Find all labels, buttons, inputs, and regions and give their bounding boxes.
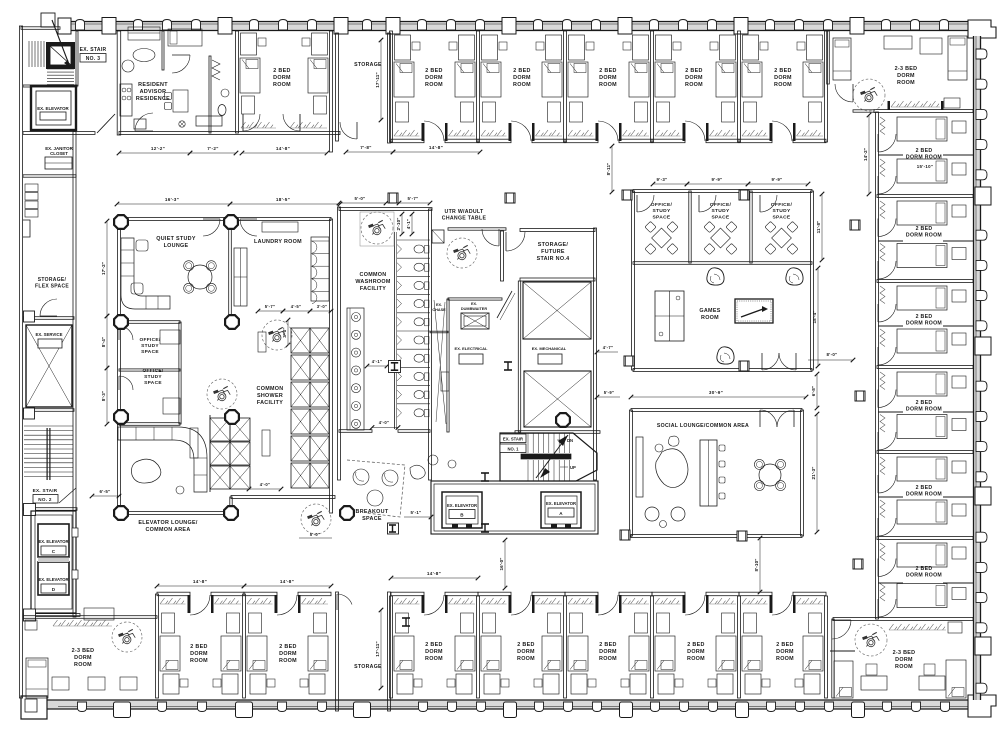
svg-text:16'-3": 16'-3" [165, 197, 179, 202]
svg-text:ROOM: ROOM [685, 82, 703, 88]
svg-text:COMMON AREA: COMMON AREA [145, 527, 190, 533]
svg-text:6'-5": 6'-5" [100, 489, 111, 494]
svg-text:BREAKOUT: BREAKOUT [356, 509, 389, 515]
svg-text:EX. STAIR: EX. STAIR [503, 437, 523, 442]
svg-text:2-3 BED: 2-3 BED [895, 66, 918, 72]
svg-text:2 BED: 2 BED [279, 644, 296, 650]
svg-text:17'-2": 17'-2" [101, 262, 106, 275]
svg-text:11'-8": 11'-8" [816, 221, 821, 234]
svg-text:ROOM: ROOM [273, 82, 291, 88]
svg-text:LOUNGE: LOUNGE [164, 243, 189, 249]
svg-text:14'-8": 14'-8" [427, 571, 441, 576]
svg-text:5'-7": 5'-7" [265, 304, 276, 309]
svg-text:STUDY: STUDY [652, 208, 671, 214]
svg-text:NO. 3: NO. 3 [86, 56, 101, 62]
svg-text:6'-8": 6'-8" [811, 386, 816, 396]
svg-text:ROOM: ROOM [513, 82, 531, 88]
svg-text:DORM: DORM [599, 649, 617, 655]
svg-text:4'-1": 4'-1" [372, 359, 383, 364]
svg-text:STORAGE: STORAGE [354, 62, 382, 68]
svg-text:RESIDENT: RESIDENT [138, 82, 168, 88]
svg-text:DORM: DORM [687, 649, 705, 655]
svg-text:2-3 BED: 2-3 BED [893, 650, 916, 656]
svg-text:ROOM: ROOM [599, 82, 617, 88]
svg-text:2 BED: 2 BED [190, 644, 207, 650]
svg-text:NO. 2: NO. 2 [38, 497, 52, 502]
svg-text:8'-4": 8'-4" [101, 337, 106, 347]
svg-text:LAUNDRY ROOM: LAUNDRY ROOM [254, 239, 302, 245]
svg-text:ROOM: ROOM [776, 656, 794, 662]
svg-text:CLOSET: CLOSET [50, 151, 68, 156]
svg-text:9'-3": 9'-3" [657, 177, 668, 182]
svg-text:STORAGE/: STORAGE/ [38, 277, 67, 283]
svg-text:OFFICE/: OFFICE/ [651, 202, 673, 208]
svg-text:FLEX SPACE: FLEX SPACE [35, 283, 69, 289]
svg-text:UP: UP [570, 465, 576, 470]
svg-text:FACILITY: FACILITY [257, 400, 283, 406]
svg-text:5'-0": 5'-0" [310, 532, 321, 537]
svg-text:2 BED: 2 BED [776, 642, 793, 648]
svg-text:4'-0": 4'-0" [379, 420, 390, 425]
svg-text:SPACE: SPACE [653, 214, 671, 220]
svg-text:14'-8": 14'-8" [276, 146, 290, 151]
svg-text:14'-8": 14'-8" [193, 579, 207, 584]
svg-text:NO. 1: NO. 1 [508, 447, 520, 452]
svg-text:EX. ELEVATOR: EX. ELEVATOR [37, 106, 69, 111]
svg-text:5'-0": 5'-0" [355, 196, 366, 201]
svg-text:DORM: DORM [685, 75, 703, 81]
svg-text:DORM: DORM [517, 649, 535, 655]
svg-text:EX.: EX. [436, 303, 442, 307]
svg-text:DORM ROOM: DORM ROOM [906, 233, 942, 239]
svg-text:2 BED: 2 BED [425, 68, 442, 74]
svg-text:EX. ELECTRICAL: EX. ELECTRICAL [455, 346, 488, 351]
svg-text:ROOM: ROOM [190, 658, 208, 664]
svg-text:ELEVATOR LOUNGE/: ELEVATOR LOUNGE/ [138, 520, 198, 526]
svg-text:EX. MECHANICAL: EX. MECHANICAL [532, 346, 567, 351]
svg-text:5'-1": 5'-1" [411, 510, 422, 515]
svg-text:DORM ROOM: DORM ROOM [906, 155, 942, 161]
svg-text:8'-3": 8'-3" [101, 391, 106, 401]
svg-text:2 BED: 2 BED [599, 68, 616, 74]
svg-text:ROOM: ROOM [701, 315, 719, 321]
svg-text:4'-5": 4'-5" [291, 304, 302, 309]
svg-text:ROOM: ROOM [425, 656, 443, 662]
svg-text:SPACE: SPACE [773, 214, 791, 220]
svg-text:17'-11": 17'-11" [375, 641, 380, 656]
svg-text:CHANGE TABLE: CHANGE TABLE [442, 216, 487, 222]
svg-text:STORAGE: STORAGE [354, 664, 382, 670]
svg-text:D: D [52, 587, 56, 592]
svg-text:COMMON: COMMON [360, 272, 387, 278]
svg-text:WASHROOM: WASHROOM [355, 279, 391, 285]
svg-text:OFFICE/: OFFICE/ [139, 337, 160, 343]
svg-text:15'-10": 15'-10" [917, 164, 933, 169]
svg-text:DORM: DORM [774, 75, 792, 81]
svg-text:ADVISOR: ADVISOR [140, 89, 167, 95]
svg-text:16'-0": 16'-0" [499, 557, 504, 570]
svg-text:DN: DN [567, 438, 573, 443]
svg-text:12'-2": 12'-2" [151, 146, 165, 151]
svg-text:18'-5": 18'-5" [276, 197, 290, 202]
svg-text:3'-0": 3'-0" [317, 304, 328, 309]
svg-text:STUDY: STUDY [141, 343, 159, 349]
svg-text:EX. ELEVATOR: EX. ELEVATOR [38, 577, 68, 582]
svg-text:2 BED: 2 BED [916, 226, 933, 232]
svg-text:DORM ROOM: DORM ROOM [906, 407, 942, 413]
svg-text:DORM: DORM [895, 657, 913, 663]
svg-text:7'-8": 7'-8" [360, 145, 371, 150]
svg-text:DORM: DORM [74, 655, 92, 661]
svg-text:DORM: DORM [279, 651, 297, 657]
svg-text:DORM: DORM [190, 651, 208, 657]
svg-text:2 BED: 2 BED [916, 148, 933, 154]
svg-text:STUDY: STUDY [772, 208, 791, 214]
svg-text:ROOM: ROOM [279, 658, 297, 664]
svg-text:5'-9": 5'-9" [604, 390, 615, 395]
svg-text:CHASE: CHASE [432, 308, 446, 312]
svg-text:2 BED: 2 BED [517, 642, 534, 648]
svg-text:17'-11": 17'-11" [375, 72, 380, 87]
svg-text:ROOM: ROOM [897, 80, 915, 86]
svg-text:EX. ELEVATOR: EX. ELEVATOR [447, 503, 477, 508]
svg-text:DORM ROOM: DORM ROOM [906, 492, 942, 498]
svg-text:4'-7": 4'-7" [603, 345, 614, 350]
svg-text:B: B [460, 513, 464, 518]
svg-text:A: A [559, 511, 563, 516]
svg-text:2 BED: 2 BED [425, 642, 442, 648]
svg-text:2 BED: 2 BED [687, 642, 704, 648]
svg-text:SPACE: SPACE [141, 349, 159, 355]
svg-text:OFFICE/: OFFICE/ [142, 368, 163, 374]
svg-text:8'-11": 8'-11" [606, 163, 611, 176]
svg-text:ROOM: ROOM [425, 82, 443, 88]
svg-text:2 BED: 2 BED [916, 485, 933, 491]
svg-text:ROOM: ROOM [517, 656, 535, 662]
svg-text:2'-10": 2'-10" [396, 217, 401, 230]
svg-text:STAIR NO.4: STAIR NO.4 [537, 256, 570, 262]
svg-text:ROOM: ROOM [895, 664, 913, 670]
svg-text:DORM: DORM [897, 73, 915, 79]
svg-text:8'-0": 8'-0" [827, 352, 838, 357]
svg-text:7'-2": 7'-2" [207, 146, 218, 151]
svg-text:2 BED: 2 BED [774, 68, 791, 74]
svg-text:4'-1": 4'-1" [406, 219, 411, 229]
svg-text:DORM ROOM: DORM ROOM [906, 321, 942, 327]
svg-text:DORM: DORM [425, 649, 443, 655]
svg-text:2 BED: 2 BED [916, 314, 933, 320]
svg-text:STORAGE/: STORAGE/ [538, 242, 569, 248]
svg-text:COMMON: COMMON [257, 386, 284, 392]
svg-text:2 BED: 2 BED [513, 68, 530, 74]
svg-text:SOCIAL LOUNGE/COMMON AREA: SOCIAL LOUNGE/COMMON AREA [657, 423, 749, 429]
svg-text:DUMBWAITER: DUMBWAITER [461, 307, 487, 311]
svg-text:DORM: DORM [273, 75, 291, 81]
svg-text:C: C [52, 549, 56, 554]
svg-text:FUTURE: FUTURE [541, 249, 565, 255]
svg-text:FACILITY: FACILITY [360, 286, 386, 292]
svg-text:18'-4": 18'-4" [812, 310, 817, 323]
svg-text:ROOM: ROOM [599, 656, 617, 662]
svg-text:DORM: DORM [425, 75, 443, 81]
svg-text:STUDY: STUDY [711, 208, 730, 214]
svg-text:5'-7": 5'-7" [408, 196, 419, 201]
svg-text:2 BED: 2 BED [685, 68, 702, 74]
svg-text:EX. SERVICE: EX. SERVICE [36, 332, 63, 337]
svg-text:EX. STAIR: EX. STAIR [80, 47, 107, 53]
svg-text:9'-9": 9'-9" [772, 177, 783, 182]
svg-text:14'-2": 14'-2" [863, 148, 868, 161]
svg-text:SPACE: SPACE [144, 380, 162, 386]
svg-text:30'-9": 30'-9" [709, 390, 723, 395]
svg-text:4'-0": 4'-0" [260, 482, 271, 487]
svg-text:GAMES: GAMES [699, 308, 720, 314]
svg-text:14'-8": 14'-8" [429, 145, 443, 150]
svg-text:DORM: DORM [599, 75, 617, 81]
svg-text:SPACE: SPACE [362, 516, 382, 522]
svg-text:EX. STAIR: EX. STAIR [33, 488, 58, 493]
svg-text:2 BED: 2 BED [916, 566, 933, 572]
svg-text:DORM: DORM [776, 649, 794, 655]
svg-text:2 BED: 2 BED [599, 642, 616, 648]
svg-text:21'-3": 21'-3" [811, 466, 816, 479]
svg-text:DORM ROOM: DORM ROOM [906, 573, 942, 579]
svg-text:ROOM: ROOM [687, 656, 705, 662]
svg-text:UTR W/ADULT: UTR W/ADULT [445, 209, 484, 215]
svg-text:2 BED: 2 BED [273, 68, 290, 74]
svg-text:STUDY: STUDY [144, 374, 162, 380]
svg-text:14'-8": 14'-8" [280, 579, 294, 584]
svg-text:ROOM: ROOM [774, 82, 792, 88]
svg-text:2 BED: 2 BED [916, 400, 933, 406]
svg-text:EX. ELEVATOR: EX. ELEVATOR [546, 501, 576, 506]
svg-text:EX. ELEVATOR: EX. ELEVATOR [38, 539, 68, 544]
svg-text:9'-9": 9'-9" [712, 177, 723, 182]
svg-text:DORM: DORM [513, 75, 531, 81]
svg-text:QUIET STUDY: QUIET STUDY [156, 236, 196, 242]
svg-text:ROOM: ROOM [74, 662, 92, 668]
svg-text:EX.: EX. [471, 302, 477, 306]
svg-text:2-3 BED: 2-3 BED [72, 648, 95, 654]
svg-text:8'-10": 8'-10" [754, 558, 759, 571]
svg-text:SHOWER: SHOWER [257, 393, 283, 399]
svg-text:SPACE: SPACE [712, 214, 730, 220]
